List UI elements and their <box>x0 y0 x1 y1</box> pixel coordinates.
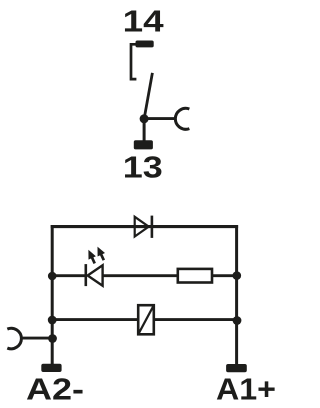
node resistor branch right <box>233 271 242 280</box>
svg-text:14: 14 <box>123 4 164 38</box>
terminal pad A1 <box>226 364 247 372</box>
wire top rail <box>51 225 238 228</box>
terminal pad 14 <box>136 41 154 48</box>
wire relay branch left <box>52 318 138 321</box>
wire right rail <box>235 225 238 365</box>
wire fixed contact hook <box>131 44 136 79</box>
terminal pad A2 <box>41 364 61 372</box>
svg-text:13: 13 <box>123 151 163 185</box>
wire LED to resistor <box>103 274 178 277</box>
LED light arrows <box>89 248 104 264</box>
svg-text:A2-: A2- <box>26 373 84 407</box>
node relay branch left <box>48 316 57 325</box>
wire relay to right rail <box>154 318 237 321</box>
relay coil K1 <box>138 305 154 334</box>
switch blade contact 13-14 <box>144 73 152 119</box>
node LED branch left <box>48 272 57 281</box>
wire to actuator <box>144 117 176 120</box>
actuator arc bottom <box>7 328 21 349</box>
actuator arc <box>175 108 189 129</box>
terminal pad 13 <box>134 140 153 149</box>
diode D1 <box>135 216 152 238</box>
resistor R1 <box>178 269 212 283</box>
wire LED branch left <box>52 274 86 277</box>
node junction contact pivot <box>140 114 149 123</box>
node actuator branch <box>48 334 57 343</box>
wire actuator to left rail <box>21 337 52 340</box>
svg-text:A1+: A1+ <box>216 373 276 407</box>
wire pivot to pad 13 <box>143 119 146 141</box>
wire left rail <box>51 225 54 365</box>
node relay branch right <box>233 316 242 325</box>
LED V1 <box>86 264 103 286</box>
wire resistor to right rail <box>213 274 237 277</box>
